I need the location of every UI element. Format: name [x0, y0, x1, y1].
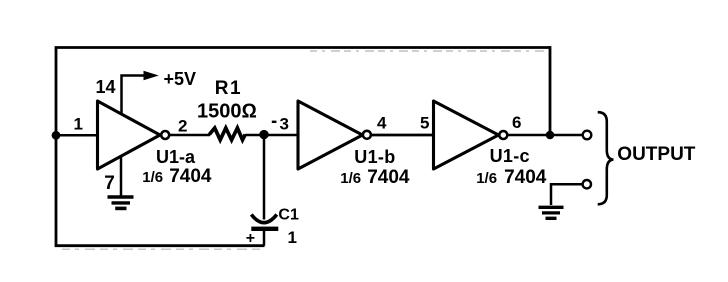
- wire: lower terminal to ground: [551, 184, 583, 205]
- svg-text:U1-c: U1-c: [490, 146, 530, 166]
- wire: left vertical feedback: [55, 48, 58, 246]
- op-amp U1-b inverter triangle: [298, 101, 363, 169]
- wire: U1-c output to upper terminal: [508, 134, 583, 137]
- svg-text:7404: 7404: [367, 167, 410, 188]
- resistor R1 zigzag: [209, 128, 245, 140]
- svg-text:1: 1: [74, 114, 83, 133]
- wire: resistor to node 3: [245, 134, 264, 137]
- svg-text:3: 3: [280, 115, 289, 134]
- wire: node 3 to U1-b input: [264, 134, 299, 137]
- svg-text:1500Ω: 1500Ω: [197, 101, 257, 123]
- output brace: [598, 112, 614, 204]
- svg-text:5: 5: [420, 114, 429, 133]
- svg-text:2: 2: [178, 116, 187, 135]
- svg-text:+5V: +5V: [164, 69, 197, 89]
- wire: right vertical from top to output node: [549, 46, 552, 135]
- wire: U1-b output to U1-c input: [372, 134, 434, 137]
- lower output terminal: [583, 180, 591, 188]
- capacitor C1 straight plate: [251, 227, 278, 231]
- wire: pin 7 to ground: [120, 156, 123, 197]
- ground at lower terminal: [539, 207, 564, 218]
- wire: pin 14 to +5V: [122, 76, 148, 115]
- wire: U1-a output to resistor: [170, 134, 210, 137]
- ground under U1-a: [108, 197, 134, 208]
- svg-text:U1-a: U1-a: [156, 147, 196, 167]
- svg-text:U1-b: U1-b: [354, 147, 395, 167]
- svg-text:6: 6: [512, 113, 521, 132]
- pin 3 label with tick: [272, 121, 277, 123]
- svg-text:7404: 7404: [504, 167, 547, 188]
- svg-text:14: 14: [96, 77, 116, 97]
- svg-text:1: 1: [288, 228, 297, 247]
- svg-text:7: 7: [104, 173, 115, 194]
- svg-text:OUTPUT: OUTPUT: [617, 144, 696, 165]
- op-amp U1-c inverter triangle: [434, 101, 499, 169]
- wire: input to U1-a pin 1: [56, 134, 98, 137]
- node B: output junction dot: [546, 131, 555, 140]
- svg-text:1/6: 1/6: [340, 170, 361, 187]
- op-amp U1-b output bubble: [363, 131, 371, 139]
- node 3 junction dot: [259, 130, 268, 139]
- capacitor C1 top lead: [263, 135, 266, 220]
- svg-text:+: +: [246, 230, 255, 247]
- upper output terminal: [583, 131, 592, 140]
- op-amp U1-c output bubble: [499, 131, 507, 139]
- svg-text:4: 4: [377, 114, 387, 133]
- svg-text:C1: C1: [278, 207, 299, 224]
- svg-text:R1: R1: [215, 78, 242, 99]
- +5V arrowhead: [144, 71, 159, 80]
- wire: bottom feedback horizontal: [55, 244, 265, 247]
- svg-text:1/6: 1/6: [142, 169, 163, 186]
- wire: top feedback horizontal: [55, 46, 550, 49]
- svg-text:1/6: 1/6: [476, 170, 497, 187]
- node A: input junction dot: [52, 131, 61, 140]
- capacitor C1 bottom lead: [263, 231, 266, 246]
- svg-text:7404: 7404: [169, 166, 212, 187]
- capacitor C1 curved plate: [251, 215, 276, 223]
- op-amp U1-a inverter triangle: [98, 101, 161, 169]
- op-amp U1-a output bubble: [161, 131, 169, 139]
